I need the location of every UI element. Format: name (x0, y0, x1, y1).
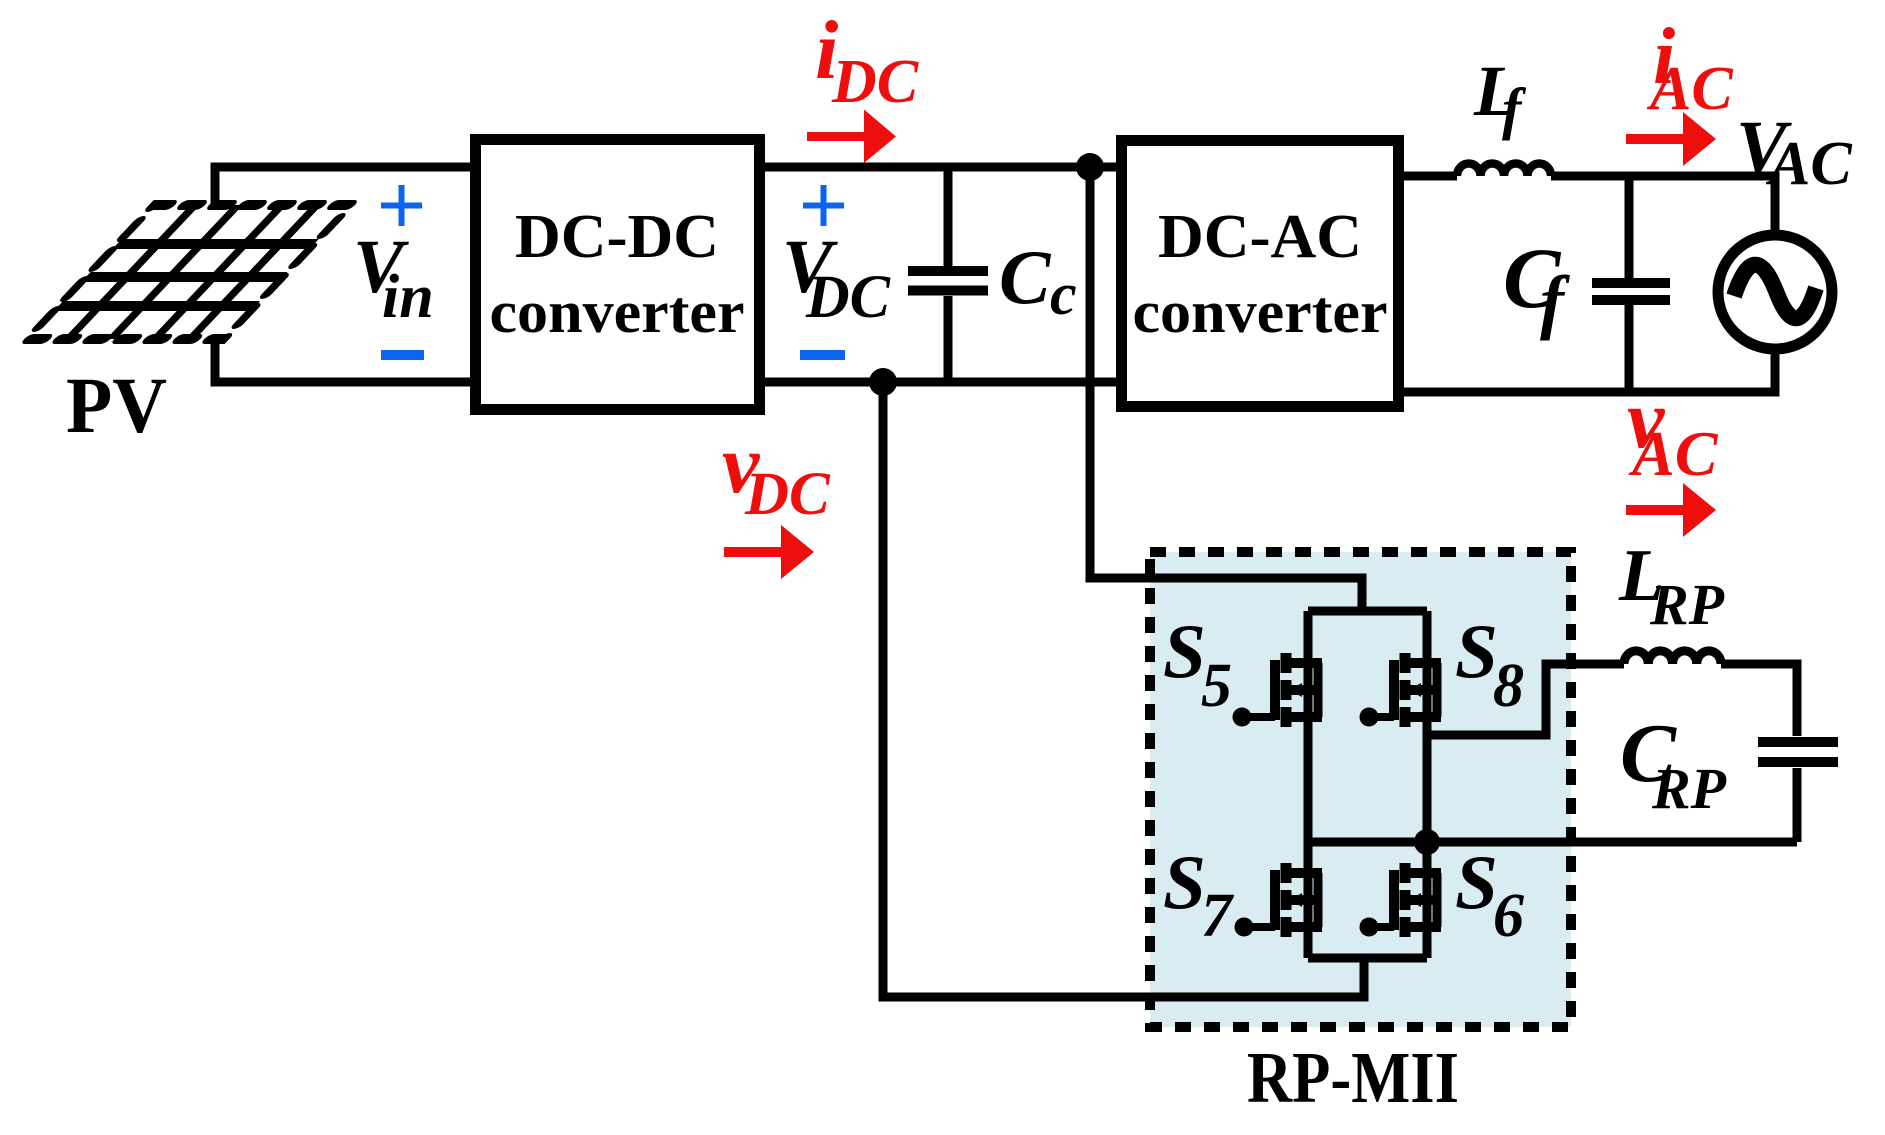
capacitor Cf plates (1592, 283, 1670, 300)
svg-text:S: S (1163, 839, 1206, 925)
svg-text:DC: DC (744, 461, 831, 528)
svg-text:5: 5 (1201, 652, 1232, 720)
wire LRP to CRP (1721, 664, 1797, 736)
wire from top rail down to RP-MII (1090, 167, 1362, 611)
H-bridge bottom rail (1308, 954, 1427, 963)
wire top right (DC-AC to Lf) (1398, 172, 1457, 181)
PV panel grid horizontal lines (58, 244, 314, 306)
H-bridge right chain (S8-S6) (1423, 611, 1432, 958)
svg-text:RP-MII: RP-MII (1247, 1037, 1459, 1118)
plus sign VDC (803, 185, 844, 226)
wire bottom rail left (PV to DC-DC) (215, 336, 480, 382)
wire top rail mid (DC-DC to DC-AC) (760, 163, 1125, 172)
H-bridge left chain (S5-S7) (1304, 611, 1313, 958)
svg-text:6: 6 (1493, 882, 1524, 950)
wire CRP bottom to H-bridge mid rail (1308, 768, 1797, 842)
arrow iDC (807, 110, 896, 164)
wire Lf to Vac corner (1551, 176, 1775, 236)
svg-text:AC: AC (1628, 418, 1719, 489)
svg-text:in: in (382, 263, 434, 331)
transistor S6 (1360, 863, 1442, 937)
wire S8 source to LRP (1427, 664, 1624, 735)
arrow iAC (1626, 112, 1716, 166)
PV panel dashed parallelogram (27, 205, 351, 339)
svg-text:AC: AC (1646, 55, 1733, 123)
svg-text:converter: converter (490, 279, 745, 345)
node H-bridge mid junction (1414, 829, 1440, 855)
svg-text:C: C (999, 234, 1052, 320)
svg-text:S: S (1455, 839, 1498, 925)
RP-MII dashed container box (1150, 552, 1571, 1027)
arrow vAC (1626, 483, 1716, 537)
inductor Lf (1457, 164, 1551, 177)
svg-text:DC-DC: DC-DC (515, 203, 719, 271)
svg-text:DC: DC (805, 264, 891, 331)
minus sign Vin (381, 350, 424, 360)
svg-text:RP: RP (1649, 572, 1725, 637)
svg-text:7: 7 (1201, 882, 1235, 950)
capacitor Cc leads (944, 167, 953, 382)
transistor S5 (1233, 653, 1323, 727)
svg-text:converter: converter (1133, 279, 1388, 345)
svg-text:S: S (1455, 608, 1498, 694)
PV panel grid slanted lines (68, 205, 317, 339)
svg-text:PV: PV (66, 363, 167, 450)
capacitor Cc plates (908, 271, 988, 291)
capacitor CRP plates (1758, 742, 1838, 762)
wire from bottom rail down to RP-MII (883, 382, 1364, 997)
DC-AC converter box (1122, 141, 1399, 407)
wire top rail left (PV to DC-DC) (215, 167, 480, 208)
H-bridge top rail (1308, 607, 1427, 616)
AC source circle (1718, 235, 1832, 349)
svg-text:RP: RP (1651, 756, 1727, 821)
svg-text:DC-AC: DC-AC (1158, 203, 1362, 271)
wire bottom rail mid (DC-DC to DC-AC) (760, 378, 1125, 387)
AC source sine wave (1734, 265, 1816, 319)
inductor LRP (1624, 651, 1721, 664)
svg-text:c: c (1050, 261, 1077, 327)
capacitor Cf leads (1625, 176, 1634, 392)
svg-text:8: 8 (1493, 652, 1524, 720)
wire bottom right (DC-AC to AC source) (1398, 348, 1775, 392)
plus sign Vin (381, 185, 422, 226)
transistor S8 (1360, 653, 1442, 727)
minus sign VDC (800, 350, 845, 360)
node top rail junction (1076, 153, 1104, 181)
svg-text:DC: DC (831, 48, 919, 116)
transistor S7 (1235, 863, 1323, 937)
arrow vDC (724, 525, 814, 579)
DC-DC converter box (476, 140, 760, 410)
node bottom rail junction (869, 368, 897, 396)
svg-text:S: S (1163, 608, 1206, 694)
svg-text:AC: AC (1765, 130, 1852, 198)
